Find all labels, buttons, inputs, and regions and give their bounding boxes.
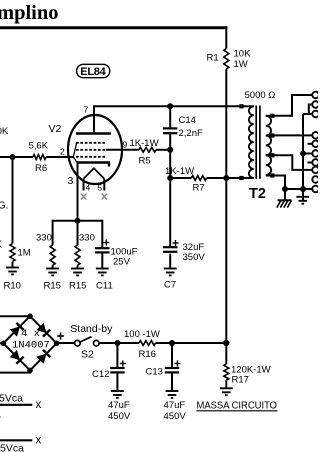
svg-text:330: 330 <box>36 233 52 244</box>
tap lead 1 <box>266 115 271 117</box>
wire top B+ rail <box>0 26 227 29</box>
diode D3 bottom-left <box>10 350 20 360</box>
svg-text:3: 3 <box>68 175 74 187</box>
output jack circle 6 <box>312 150 319 157</box>
svg-text:C12: C12 <box>92 369 109 380</box>
node dot common/jack6 <box>300 151 306 157</box>
node dot bridge left <box>1 341 7 347</box>
wire S2 to C12 node <box>99 342 139 344</box>
ground T2 secondary <box>296 197 309 204</box>
wire g2 to pin9 out <box>106 149 139 151</box>
wire C14 to R7 node <box>169 133 171 178</box>
wire R5 to node <box>156 149 170 151</box>
resistor R6 <box>33 155 46 160</box>
pin 4 lead <box>83 179 85 191</box>
svg-text:9: 9 <box>123 140 128 150</box>
diode D4 bottom-right <box>36 354 46 364</box>
svg-text:R10: R10 <box>4 281 21 292</box>
core line 2 <box>259 106 261 179</box>
switch S2 contact right <box>94 340 100 346</box>
tap lead 4 <box>266 175 271 177</box>
wire R6 to grid pin2 <box>46 156 74 158</box>
diode D2 top-right <box>36 323 46 333</box>
heater X mark pin4 <box>81 194 87 200</box>
svg-text:47uF: 47uF <box>164 400 186 411</box>
output jack circle 9 <box>312 176 319 183</box>
primary winding T2 <box>249 106 254 178</box>
svg-text:10K: 10K <box>234 49 252 60</box>
grid g2 dashed row <box>76 149 107 151</box>
node dot R7 left <box>167 175 173 181</box>
svg-text:R5: R5 <box>139 156 151 167</box>
wire drop to R15a <box>52 220 54 245</box>
ground R10 <box>6 268 19 275</box>
output jack circle 1 <box>312 92 319 99</box>
wire input to node <box>0 156 33 158</box>
svg-text:C11: C11 <box>96 281 113 292</box>
node dot bridge right <box>54 341 60 347</box>
heater X mark pin5 <box>102 194 108 200</box>
output jack circle 3 <box>312 111 319 118</box>
grid lead diagonal lower <box>73 157 77 162</box>
terminal square tap1 <box>270 114 274 118</box>
resistor R15 a <box>50 245 55 265</box>
plus sign C11 <box>103 240 109 246</box>
svg-text:2: 2 <box>60 147 65 157</box>
core line 1 <box>255 106 257 179</box>
output jack circle 8 <box>312 167 319 174</box>
output jack circle 10 <box>312 186 319 193</box>
wire node to C14 <box>169 106 171 128</box>
svg-text:2,2nF: 2,2nF <box>179 128 203 139</box>
svg-text:450V: 450V <box>164 411 187 422</box>
node dot input <box>10 154 16 160</box>
grid lead diagonal upper <box>73 143 76 157</box>
capacitor C14 <box>163 127 177 129</box>
wire C7 to ground <box>169 254 171 269</box>
wire node to C13 <box>171 343 173 368</box>
anode plate bar <box>76 132 111 135</box>
svg-text:T2: T2 <box>249 186 266 202</box>
wire R7 to B+ node <box>207 177 242 179</box>
bridge rectifier outline <box>3 316 56 370</box>
underline MASSA CIRCUITO <box>197 410 278 412</box>
ground C12 <box>111 391 124 398</box>
plus sign C12 <box>120 361 126 367</box>
wire jack7 stub <box>308 162 313 164</box>
svg-text:5000 Ω: 5000 Ω <box>245 90 276 101</box>
wire primary bottom lead <box>243 177 254 179</box>
plus sign C13 <box>174 361 180 367</box>
svg-text:x: x <box>36 399 42 411</box>
node dot R5/C14 <box>167 147 173 153</box>
wire drop to R15b <box>77 221 79 245</box>
node dot bus right <box>300 186 306 192</box>
capacitor C13 <box>165 367 179 369</box>
wire heater line 2 <box>0 439 32 441</box>
node dot plate/C14 <box>167 103 173 109</box>
wire R17 to ground <box>225 380 227 388</box>
node dot C13 <box>169 340 175 346</box>
svg-text:5Vca: 5Vca <box>0 393 23 405</box>
svg-text:R7: R7 <box>193 183 205 194</box>
wire node to C7 <box>169 178 171 247</box>
svg-text:4 x: 4 x <box>21 328 40 340</box>
svg-text:R17: R17 <box>232 375 249 386</box>
wire to chassis ground <box>284 189 286 200</box>
svg-text:EL84: EL84 <box>80 66 106 78</box>
terminal square primary top <box>239 104 243 108</box>
output jack circle 5 <box>312 141 319 148</box>
EL84 type label oval <box>77 64 110 77</box>
svg-text:450V: 450V <box>108 411 131 422</box>
ground R17 <box>220 388 233 395</box>
tap lead 2 <box>266 135 271 137</box>
svg-text:G.: G. <box>0 200 8 211</box>
svg-text:R16: R16 <box>139 349 156 360</box>
plus sign C7 <box>173 240 179 246</box>
output jack circle 4 <box>312 132 319 139</box>
svg-text:1W: 1W <box>234 59 248 70</box>
svg-text:S2: S2 <box>81 349 94 361</box>
svg-text:7: 7 <box>84 105 89 115</box>
wire ground bus <box>285 188 312 190</box>
svg-text:1M: 1M <box>18 248 31 259</box>
svg-text:350V: 350V <box>183 252 206 263</box>
resistor R10 <box>10 244 15 262</box>
svg-text:5,6K: 5,6K <box>29 141 49 152</box>
output jack circle 2 <box>312 101 319 108</box>
wire tap1 to jack1 <box>275 95 313 116</box>
svg-text:1K-1W: 1K-1W <box>165 166 194 177</box>
wire R1 bottom to node <box>225 69 227 179</box>
resistor R17 <box>224 364 229 380</box>
wire cathode bus <box>53 220 103 222</box>
svg-text:1K-1W: 1K-1W <box>130 138 159 149</box>
switch S2 contact left <box>75 340 81 346</box>
grid g3 dashed row <box>76 142 107 144</box>
wire C11 to ground <box>101 252 103 268</box>
wire to earth ground <box>302 189 304 202</box>
ground C11 <box>96 269 109 276</box>
wire R16 to C13 node <box>156 342 227 344</box>
ground C13 <box>166 391 179 398</box>
svg-text:C7: C7 <box>164 280 176 291</box>
wire cathode lead down <box>77 163 79 221</box>
svg-text:4: 4 <box>86 183 91 193</box>
chassis ground T2 <box>277 200 292 207</box>
wire primary top lead <box>243 105 254 107</box>
svg-text:R15: R15 <box>44 281 61 292</box>
wire jack5 stub <box>308 143 313 145</box>
svg-text:R6: R6 <box>35 163 47 174</box>
wire to R7 <box>170 177 191 179</box>
node dot bus left <box>282 186 288 192</box>
plus sign bridge <box>57 333 64 340</box>
node dot C12 <box>114 340 120 346</box>
svg-text:x: x <box>36 434 42 446</box>
wire node to R17 <box>225 343 227 364</box>
secondary winding T2 <box>266 116 271 175</box>
node dot B+ bottom <box>223 340 229 346</box>
output jack circle 7 <box>312 159 319 166</box>
svg-text:47uF: 47uF <box>108 400 130 411</box>
svg-text:330: 330 <box>79 233 95 244</box>
svg-text:5: 5 <box>98 183 103 193</box>
tap lead 3 <box>266 154 271 156</box>
svg-text:V2: V2 <box>49 123 62 135</box>
wire B+ vertical <box>225 178 227 343</box>
wire input node down <box>12 157 14 244</box>
svg-text:K: K <box>0 240 2 251</box>
wire anode to transformer primary top <box>94 105 242 107</box>
terminal square primary bottom <box>239 176 243 180</box>
svg-text:1N4007: 1N4007 <box>12 340 50 352</box>
svg-text:Stand-by: Stand-by <box>70 323 113 335</box>
wire node to C12 <box>116 343 118 368</box>
node dot cathode <box>75 218 81 224</box>
resistor R5 <box>139 147 156 152</box>
switch S2 lever <box>80 337 92 342</box>
wire bridge to S2 <box>57 342 75 344</box>
wire heater line 1 <box>0 404 32 406</box>
resistor R7 <box>191 176 206 181</box>
wire AC left in <box>0 342 3 344</box>
tube V2 envelope <box>68 115 122 184</box>
wire tap4 to ground bus <box>275 176 286 190</box>
svg-text:C13: C13 <box>146 367 163 378</box>
svg-text:25V: 25V <box>113 257 131 268</box>
heater filament V <box>84 168 105 179</box>
svg-text:5Vca: 5Vca <box>0 442 24 452</box>
wire common vertical <box>302 114 304 189</box>
node dot bridge bottom <box>27 368 33 374</box>
svg-text:R1: R1 <box>207 53 219 64</box>
wire C12 to ground <box>116 372 118 391</box>
resistor R15 b <box>75 245 80 265</box>
grid g1 dashed row <box>76 156 107 158</box>
terminal square tap4 <box>270 173 274 177</box>
node dot bridge top <box>27 313 33 319</box>
node dot B+/primary bottom <box>223 175 229 181</box>
wire C13 to ground <box>171 372 173 391</box>
wire jack6 <box>303 153 312 155</box>
wire tap2 to jack4 <box>275 134 313 136</box>
wire bridge bottom out <box>0 370 30 372</box>
wire jack2 stub <box>309 105 313 115</box>
terminal square tap2 <box>270 133 274 137</box>
pin 5 lead <box>103 179 105 191</box>
terminal square tap3 <box>270 153 274 157</box>
wire drop to C11 <box>101 220 103 249</box>
svg-text:R15: R15 <box>69 281 86 292</box>
svg-text:100 -1W: 100 -1W <box>124 329 160 340</box>
wire R10 to ground <box>12 262 14 268</box>
wire vertical from rail to R1 <box>225 27 227 49</box>
capacitor C11 <box>95 247 109 249</box>
resistor R1 <box>224 49 229 70</box>
wire AC top in <box>0 315 30 317</box>
diode D1 top-left <box>10 326 20 336</box>
wire tap3 to jack8 <box>275 155 313 170</box>
resistor R16 <box>139 341 156 346</box>
svg-text:MASSA CIRCUITO: MASSA CIRCUITO <box>197 401 278 412</box>
cathode bar <box>77 161 111 163</box>
ground R15a <box>46 269 59 276</box>
svg-text:mplino: mplino <box>0 2 59 24</box>
wire pin7 plate lead <box>93 105 95 133</box>
ground C7 <box>164 269 177 276</box>
svg-text:0K: 0K <box>0 126 9 137</box>
ground R15b <box>71 269 84 276</box>
wire jack3 to ground line <box>303 113 312 115</box>
svg-text:C14: C14 <box>179 115 196 126</box>
cathode bar right tick <box>108 163 110 167</box>
capacitor C7 <box>163 246 177 248</box>
capacitor C12 <box>110 367 124 369</box>
